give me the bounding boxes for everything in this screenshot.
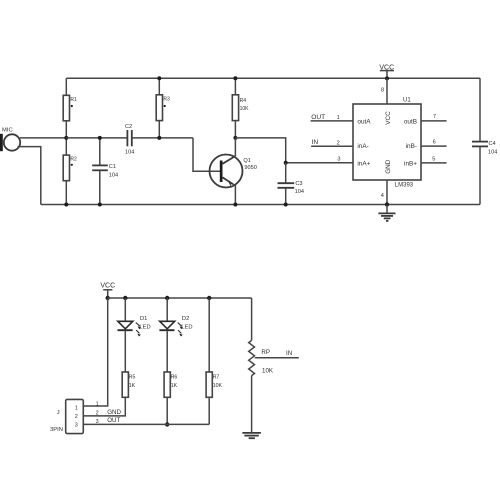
wire collector up to R4 node [234,138,236,156]
wire R7 top [208,298,210,372]
wire R5 bottom to connector pin2 [83,397,125,416]
svg-text:VCC: VCC [385,111,392,125]
svg-text:1: 1 [96,401,99,407]
svg-text:1K: 1K [129,383,136,389]
wire mic lower down to bottom rail [18,147,41,205]
wire mic upper to R1/R2 node [20,137,67,139]
svg-text:3: 3 [96,419,99,425]
wire pin 6 stub [421,145,447,147]
svg-text:U1: U1 [403,98,411,104]
svg-text:IN: IN [312,139,319,146]
svg-text:inB-: inB- [406,143,417,150]
wire D2 cathode to R6 [166,330,168,372]
resistor R4 [232,78,249,138]
bottom circuit [50,282,299,438]
svg-text:1K: 1K [171,383,178,389]
capacitor C1 [92,138,118,205]
wire D1 anode [124,298,126,321]
ground symbol (RP) [242,433,261,438]
op-amp U1 LM393 body [353,104,421,180]
svg-text:R3: R3 [163,97,170,103]
resistor R6 [164,372,177,397]
wiper wire to IN [255,357,299,359]
node C3 top junction [284,161,288,165]
svg-text:104: 104 [109,173,118,179]
node C3 bottom junction [284,203,288,207]
node R6/OUT junction [165,422,169,426]
svg-text:10K: 10K [240,106,250,112]
top circuit [0,64,497,221]
capacitor C4 [472,142,488,147]
svg-text:C4: C4 [489,141,496,147]
svg-text:outA: outA [357,119,371,126]
wire mid rail right of C2 [132,137,193,139]
svg-text:R5: R5 [129,374,136,380]
LED D2 [159,321,183,336]
svg-text:R1: R1 [70,97,77,103]
svg-text:R4: R4 [240,98,247,104]
svg-text:7: 7 [433,114,436,120]
wire connector pin1 riser [83,298,107,406]
svg-text:R2: R2 [70,157,77,163]
wire mid rail left [66,137,127,139]
node C1 bottom junction [98,203,102,207]
wire D1 cathode to R5 [124,330,126,372]
svg-text:2: 2 [337,140,340,146]
node C1 top junction [98,136,102,140]
node pin4 ground junction [385,202,389,206]
svg-text:10K: 10K [213,383,223,389]
svg-text:OUT: OUT [311,114,325,121]
node R4 bottom junction [233,136,237,140]
VCC symbol top [379,64,394,78]
wire bottom rail [41,204,480,206]
wire pin 2 stub [311,145,353,147]
node R3 top junction [157,76,161,80]
svg-text:2: 2 [96,411,99,417]
resistor R1 [63,78,77,138]
svg-text:2: 2 [75,414,78,420]
wire base feed (C2 node down to transistor base) [193,138,220,171]
svg-text:104: 104 [295,189,304,195]
node D2 rail junction [165,296,169,300]
svg-text:1: 1 [75,406,78,412]
svg-text:GND: GND [107,409,121,416]
svg-text:LED: LED [139,324,150,330]
svg-text:VCC: VCC [100,282,115,289]
svg-text:4: 4 [381,193,384,199]
capacitor C2 [125,124,134,155]
svg-text:MIC: MIC [2,128,13,134]
node VCC junction [385,76,389,80]
svg-text:R6: R6 [171,374,178,380]
svg-text:D1: D1 [140,316,147,322]
capacitor C3 [278,163,304,205]
svg-text:RP: RP [261,349,270,356]
svg-text:10K: 10K [262,368,274,375]
wire VCC rail [108,297,252,299]
svg-text:3PIN: 3PIN [50,427,63,433]
wire top rail [66,77,480,79]
svg-text:1: 1 [337,115,340,121]
svg-text:OUT: OUT [107,417,120,424]
svg-text:104: 104 [125,149,134,155]
wire C3 node to pin3 [286,162,353,164]
svg-text:GND: GND [385,159,392,174]
wire R7 bottom to OUT line [208,397,210,424]
wire R4 node to C3 node (inA+ feed) [235,138,285,163]
wire D2 anode [166,298,168,321]
svg-text:6: 6 [433,140,436,146]
svg-text:C3: C3 [295,181,302,187]
svg-text:outB: outB [404,119,417,126]
svg-text:3: 3 [337,156,340,162]
wire pin 1 stub [311,120,353,122]
svg-text:9050: 9050 [244,165,256,171]
svg-text:3: 3 [75,422,78,428]
wire pin 4 vertical [386,180,388,205]
label C4 104 [488,141,497,156]
node R1/R2/mic junction [64,136,68,140]
svg-text:J: J [57,410,60,416]
wire RP bottom to ground [251,376,253,433]
resistor R3 [156,78,170,138]
svg-text:C2: C2 [125,124,132,130]
svg-text:C1: C1 [109,164,116,170]
microphone MIC [0,128,20,152]
connector J 3PIN [66,399,84,433]
wire pin 7 stub [421,120,447,122]
svg-text:D2: D2 [182,316,189,322]
resistor R2 [63,138,77,205]
wire right vertical upper (to C4) [479,78,481,141]
node R7 rail junction [207,296,211,300]
node D1 rail junction [123,296,127,300]
wire pin 5 stub [421,162,447,164]
resistor R5 [122,372,135,397]
transistor Q1 9050 [210,155,257,188]
potentiometer RP zigzag [249,340,255,375]
svg-text:inB+: inB+ [404,160,417,167]
svg-text:R7: R7 [213,374,220,380]
svg-text:Q1: Q1 [243,158,250,164]
LED D1 [118,321,142,336]
svg-text:8: 8 [381,88,384,94]
node R4 top junction [233,76,237,80]
svg-text:inA+: inA+ [357,160,370,167]
wire pin 8 vertical [386,78,388,104]
svg-text:LED: LED [181,324,192,330]
svg-text:5: 5 [432,157,435,163]
svg-text:inA-: inA- [357,143,368,150]
wire OUT line to connector pin3 [83,423,209,425]
svg-text:LM393: LM393 [395,183,414,189]
wire right vertical lower [479,147,481,205]
svg-text:IN: IN [286,350,292,357]
VCC symbol bottom [100,282,115,298]
resistor R7 [206,372,222,397]
node R2 bottom junction [64,203,68,207]
svg-text:104: 104 [488,150,497,156]
wire R6 bottom to OUT line [166,397,168,424]
node R3 bottom junction [157,136,161,140]
ground symbol (top circuit) [378,205,395,221]
wire emitter down to bottom rail [234,185,236,205]
node VCC rail junction [106,296,110,300]
wire rail to RP [251,298,253,340]
node emitter bottom junction [233,203,237,207]
